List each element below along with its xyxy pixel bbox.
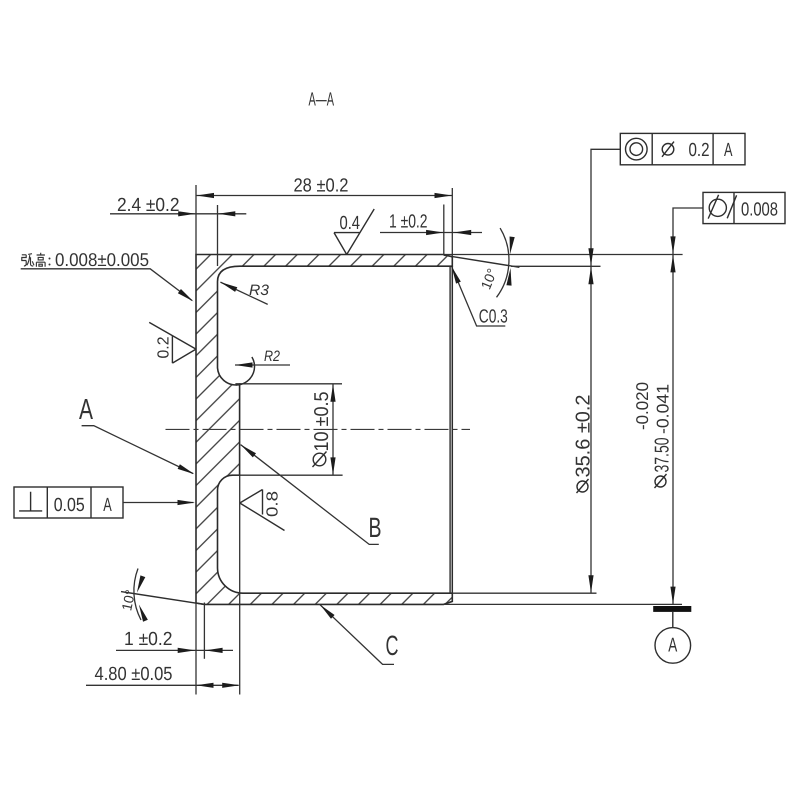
- fillet label R3: [220, 282, 267, 304]
- dim 1 +-0.2 top: [380, 232, 482, 234]
- perpendicularity feature control frame: [14, 487, 123, 518]
- top outer surface extension line: [444, 254, 683, 256]
- bottom outer surface extension line: [444, 603, 683, 605]
- phi10 symbol: [313, 453, 326, 466]
- svg-text:28 ±0.2: 28 ±0.2: [294, 176, 349, 197]
- svg-text:C: C: [386, 630, 399, 661]
- svg-text:0.008: 0.008: [741, 199, 778, 220]
- bore top extension line: [511, 265, 601, 267]
- svg-text:2.4 ±0.2: 2.4 ±0.2: [117, 195, 180, 216]
- svg-text:A: A: [724, 140, 733, 161]
- roughness 0.2 on left face: [149, 322, 196, 363]
- svg-text:0.8: 0.8: [265, 491, 282, 517]
- datum A target: bar, stem, circle: [653, 606, 691, 612]
- rim face line: [451, 266, 453, 593]
- angle 10deg top right: [497, 228, 509, 297]
- svg-text:0.05: 0.05: [54, 495, 85, 516]
- angle 10deg bottom left: [134, 569, 141, 621]
- svg-text:-0.041: -0.041: [654, 384, 673, 434]
- CJK char hu (arc): [22, 254, 34, 266]
- svg-text:0.008±0.005: 0.008±0.005: [55, 249, 149, 270]
- bottom inner extension line: [452, 592, 596, 594]
- svg-text:35.6 ±0.2: 35.6 ±0.2: [573, 395, 595, 478]
- cylindricity feature control frame: [703, 192, 785, 223]
- dim phi10 extension lines: [235, 383, 342, 385]
- dim phi35.6 line: [591, 149, 620, 593]
- dim 2.4 +-0.2: [110, 213, 246, 215]
- groove label R2: [235, 364, 290, 366]
- centerline (axis): [166, 428, 471, 430]
- dim phi37.50 line: [673, 208, 703, 604]
- svg-text:0.4: 0.4: [340, 213, 361, 234]
- bottom dim 4.80 +-0.05: [195, 603, 197, 695]
- chamfer edge line C0.3: [449, 266, 451, 593]
- part section outline with hatch: [196, 255, 452, 605]
- svg-text:A: A: [79, 394, 93, 426]
- svg-text:37.50: 37.50: [652, 438, 674, 473]
- svg-text:0.2: 0.2: [689, 140, 710, 161]
- roughness 0.4 on top surface: [334, 209, 374, 255]
- chamfer label C0.3: [452, 267, 506, 326]
- 10deg taper line top right: [444, 255, 520, 267]
- dim 28 +-0.2 extension lines: [195, 185, 197, 255]
- svg-text:0.2: 0.2: [156, 336, 173, 358]
- concentricity feature control frame: [620, 133, 745, 164]
- svg-text:10 ±0.5: 10 ±0.5: [311, 392, 333, 452]
- bottom dim 1 +-0.2: [203, 603, 205, 659]
- svg-text:B: B: [369, 512, 382, 543]
- roughness 0.8 on boss face: [240, 490, 285, 531]
- 10deg taper line bottom left: [121, 592, 205, 605]
- svg-text:-0.020: -0.020: [633, 382, 652, 430]
- dim 28 +-0.2: [196, 195, 452, 197]
- svg-text:R2: R2: [264, 348, 281, 365]
- arc-height label (CJK) leader: [21, 269, 192, 301]
- svg-text:1 ±0.2: 1 ±0.2: [124, 629, 173, 650]
- CJK char gao (high): [36, 253, 45, 267]
- svg-text:A—A: A—A: [309, 90, 335, 111]
- svg-text:C0.3: C0.3: [479, 307, 508, 328]
- dim phi10 line: [332, 384, 334, 475]
- svg-text:1 ±0.2: 1 ±0.2: [389, 212, 428, 233]
- svg-text:A: A: [103, 495, 112, 516]
- fullwidth colon: [49, 258, 51, 260]
- relief groove arc continuation (R2 undercut): [236, 357, 255, 385]
- svg-text:A: A: [668, 635, 677, 657]
- svg-text:4.80 ±0.05: 4.80 ±0.05: [95, 664, 173, 685]
- svg-text:R3: R3: [249, 282, 270, 299]
